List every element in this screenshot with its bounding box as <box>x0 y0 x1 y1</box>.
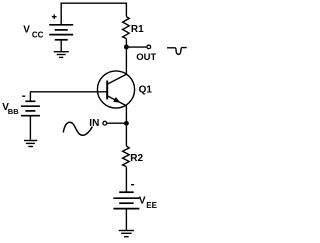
svg-text:R2: R2 <box>130 153 143 164</box>
svg-text:Q1: Q1 <box>139 84 153 95</box>
svg-text:V: V <box>139 196 146 207</box>
svg-text:R1: R1 <box>131 24 144 35</box>
svg-text:OUT: OUT <box>136 52 156 63</box>
svg-text:EE: EE <box>146 201 157 210</box>
svg-text:V: V <box>23 24 30 35</box>
svg-text:CC: CC <box>32 31 44 40</box>
svg-text:IN: IN <box>89 118 99 129</box>
svg-text:BB: BB <box>8 107 19 116</box>
